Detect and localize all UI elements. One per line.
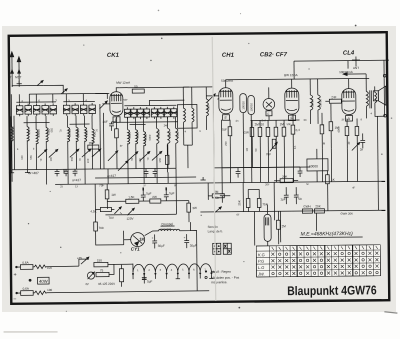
antenna labels [8, 75, 22, 79]
tube CB2 [263, 98, 275, 116]
coupling resistor R24F [325, 95, 344, 103]
svg-text:1K: 1K [139, 237, 144, 242]
svg-text:1500: 1500 [176, 131, 180, 138]
resistor R pot vertical [119, 265, 123, 287]
IF2 coil L18 [310, 79, 313, 124]
IF2 coil L19 [318, 79, 321, 124]
wire CL4 top lead [348, 79, 350, 89]
section label CK1 [107, 53, 120, 59]
padder capacitor PC4 [144, 107, 150, 119]
svg-text:120V: 120V [126, 217, 133, 221]
svg-text:4000: 4000 [337, 126, 341, 133]
svg-text:5000: 5000 [144, 133, 148, 140]
svg-text:60000: 60000 [309, 164, 318, 168]
wire CK1 grid feed a [99, 104, 102, 169]
wire net pot [108, 264, 133, 274]
svg-text:30000: 30000 [37, 129, 41, 138]
label 70F mid [99, 183, 104, 187]
wire net n2 [161, 200, 189, 202]
tube CL4 [342, 89, 356, 122]
legend bullet 2 [205, 276, 240, 280]
trimmer arrow T4 [82, 149, 91, 157]
scan speck top band [158, 9, 241, 15]
wire AVC bus [251, 119, 300, 121]
wire CK1 cathode [112, 117, 117, 122]
svg-text:100: 100 [20, 155, 24, 160]
resistor RZ2 [35, 286, 210, 294]
svg-text:50F: 50F [123, 98, 128, 102]
wire top bus upper [294, 60, 389, 79]
svg-text:+25: +25 [77, 256, 82, 260]
capacitor C n6 [280, 187, 289, 204]
svg-text:50/12mA: 50/12mA [221, 79, 233, 83]
wire HT bus risers [108, 168, 168, 184]
cap C_a1 [55, 169, 60, 176]
scan mark bottom right [384, 312, 397, 314]
capacitor E1 100uF [240, 94, 247, 168]
resistor R 2W mid [150, 195, 161, 203]
legend bullet 1 [205, 270, 231, 274]
svg-text:13000: 13000 [310, 99, 314, 107]
trimmer arrow mid3 [152, 151, 162, 160]
svg-text:700: 700 [99, 226, 104, 230]
wire net n5 [248, 188, 259, 190]
switch SW mid [208, 183, 221, 213]
band switch table [256, 245, 380, 277]
wire mid left riser [95, 184, 100, 222]
resistor R_b2 [258, 120, 262, 167]
svg-text:Gr=407: Gr=407 [28, 171, 39, 175]
wire vert n10 [253, 211, 255, 245]
svg-text:555: 555 [29, 155, 33, 160]
wire ext v7 [175, 168, 177, 183]
cap C_m1 [144, 168, 149, 177]
resistor R_b1 [244, 120, 255, 167]
coil L11 [144, 117, 146, 169]
svg-text:100/10: 100/10 [241, 101, 245, 110]
padder capacitor PC1 [124, 107, 130, 119]
wire ext v4 [127, 169, 129, 184]
svg-text:P.G: P.G [258, 259, 264, 264]
connector hook top [383, 74, 386, 77]
padder capacitor PC2 [131, 107, 137, 119]
connector hook mid [384, 114, 387, 117]
dial cord pulleys [132, 267, 214, 279]
svg-text:4F: 4F [352, 186, 355, 190]
coil L13 [168, 117, 171, 169]
IF can outline [177, 105, 197, 129]
micro labels mid [60, 182, 356, 219]
trimmer arrow CK1 bottom [108, 151, 118, 161]
capacitor C n7 [294, 187, 302, 204]
wire left chassis vertical 2 [13, 116, 16, 170]
svg-text:3F: 3F [120, 144, 123, 148]
resistor R_b5 [282, 120, 286, 167]
capacitor C 30uF a [152, 234, 165, 248]
wire riser left [28, 94, 30, 104]
capacitor C 6uF [142, 274, 153, 284]
wire ext tube5 [259, 167, 261, 182]
svg-text:2W: 2W [152, 195, 157, 199]
trimmer arrow T5 [92, 149, 101, 157]
svg-text:1M: 1M [280, 122, 285, 126]
trimmer arrow T2 [49, 149, 58, 157]
resistor R_a 50 [132, 85, 144, 94]
wire under tubes bottom [222, 166, 300, 169]
wire ext tube3 [243, 168, 245, 183]
wire right column [383, 78, 385, 116]
wire riser boxA5 [52, 94, 54, 103]
resistor R 1.5K [107, 195, 139, 204]
label ANT [352, 56, 360, 70]
svg-text:5F: 5F [306, 182, 309, 186]
scan speckles [26, 24, 394, 312]
legend line 3 [211, 280, 227, 284]
trimmer arrow CH1 [208, 94, 215, 101]
svg-text:7F: 7F [143, 184, 146, 188]
svg-text:555: 555 [158, 157, 162, 162]
dial cord scallops [133, 264, 211, 273]
resistor R_b3 [266, 120, 270, 167]
wire ext v1 [46, 169, 48, 184]
cap C_m2 [153, 168, 158, 177]
svg-text:K.G: K.G [258, 252, 265, 257]
padder capacitor PA2 [25, 104, 32, 117]
trimmer arrow CK1 bottom2 [118, 161, 128, 171]
wire CY1 leads [96, 231, 131, 245]
svg-text:20F: 20F [89, 141, 94, 145]
coil L3 [36, 116, 39, 170]
padder capacitor PB4 [89, 103, 96, 116]
micro labels RF [16, 95, 372, 150]
svg-text:2n7: 2n7 [262, 118, 267, 122]
coil L2 [27, 116, 30, 170]
label 2n right [360, 147, 364, 151]
trimmer arrow mid1 [128, 152, 138, 161]
svg-text:GW: GW [244, 131, 249, 135]
label 04 b [296, 128, 301, 132]
section label CL4 [343, 51, 355, 57]
svg-text:+: + [184, 236, 186, 240]
connector block X2 [223, 243, 231, 254]
label Drossel [161, 222, 175, 226]
fuse F2 0.6A [17, 287, 35, 296]
wire ext r2 [330, 149, 332, 182]
coil CH1 grid [206, 87, 210, 130]
ground G1 [9, 170, 14, 173]
svg-text:0,4: 0,4 [296, 128, 301, 132]
svg-text:555: 555 [27, 129, 31, 134]
svg-text:100: 100 [138, 158, 142, 163]
svg-text:CY1: CY1 [131, 247, 140, 252]
svg-text:0,6A: 0,6A [23, 287, 29, 291]
wire plus riser [79, 259, 89, 266]
svg-text:100: 100 [86, 158, 90, 163]
padder capacitor PB2 [72, 103, 79, 116]
wire net riser table [315, 213, 317, 230]
wire CK1 top lead [116, 88, 119, 92]
transformer TR1 core [370, 90, 372, 108]
label ME frequency [300, 231, 363, 238]
fuse F1 0.6A [16, 261, 34, 270]
svg-text:GWH: GWH [303, 204, 310, 208]
svg-text:50: 50 [215, 196, 219, 200]
barretter tube U1 [264, 204, 271, 249]
cap C_a2 [64, 169, 69, 176]
coil L10 [136, 117, 138, 169]
svg-text:100: 100 [47, 288, 52, 292]
wire net n1 [139, 200, 150, 202]
wire choke out [191, 231, 197, 251]
cap C_a3 [73, 169, 78, 176]
capacitor C 30uF b [184, 234, 197, 248]
voltage switch SW70 [108, 207, 134, 221]
micro labels RF2 [20, 140, 351, 164]
wire link clusterA [24, 121, 50, 123]
wire box row C frame [124, 100, 184, 106]
svg-text:1,5K: 1,5K [128, 195, 134, 199]
svg-text:+: + [13, 272, 16, 278]
resistor R GWH [302, 204, 324, 213]
svg-text:555: 555 [70, 156, 74, 161]
svg-text:100: 100 [49, 157, 53, 162]
wire riser boxA3 [35, 94, 37, 103]
wire CH1 grid vertical [212, 96, 215, 183]
cap C_k1 [109, 122, 114, 131]
svg-text:CL4: CL4 [343, 51, 355, 57]
padder capacitor PC6 [158, 107, 164, 119]
rectifier CY1 [131, 233, 145, 247]
wire ext tube1 [221, 168, 223, 183]
wire screen bus [120, 121, 178, 124]
trimmer arrow right [352, 142, 360, 150]
svg-text:40W: 40W [39, 279, 48, 284]
svg-text:Sendlin: Sendlin [208, 225, 219, 229]
wire IF top [183, 86, 213, 88]
tube CF7 [285, 88, 299, 121]
coil L4 [46, 116, 49, 170]
wire main HT bus [55, 181, 385, 184]
label MW 12mA [116, 81, 130, 85]
svg-text:555: 555 [206, 105, 210, 110]
coil L8 [92, 116, 95, 170]
label mid bottom [107, 174, 116, 178]
power resistor block [307, 149, 328, 182]
label Sender line1 [208, 225, 219, 229]
svg-text:mauvenise.: mauvenise. [211, 280, 227, 284]
wire vert n11 [279, 211, 281, 242]
svg-text:5µF: 5µF [146, 191, 151, 195]
svg-text:200: 200 [224, 141, 228, 146]
wire ext v5 [143, 169, 145, 184]
padder capacitor PA4 [42, 103, 49, 116]
wire CB2 base down [268, 116, 270, 120]
padder capacitor PA1 [16, 104, 23, 117]
resistor R_c3 [329, 104, 340, 149]
band switch S2 [61, 89, 67, 94]
tube CH1 [219, 88, 233, 121]
ground G2 [25, 170, 30, 173]
potentiometer P1 [266, 139, 278, 156]
resistor R_r1 [337, 119, 349, 149]
wire plate feed CL4 [343, 72, 366, 78]
resistor R 4.5K [90, 207, 111, 213]
antenna A1 [10, 52, 14, 87]
resistor R 700 [94, 222, 104, 241]
lamp LP1 [87, 272, 94, 279]
ground mid1 [200, 177, 205, 180]
capacitor E2 100uF [248, 95, 255, 167]
svg-text:F: F [267, 112, 269, 116]
title Blaupunkt 4GW76 [287, 283, 377, 298]
wire ext r3 [346, 149, 348, 182]
svg-text:30µF: 30µF [190, 244, 197, 248]
capacitor C 5uF b [164, 187, 175, 201]
wire ext r1 [321, 149, 323, 182]
section label CH1 [222, 53, 235, 59]
svg-text:50F: 50F [287, 122, 292, 126]
svg-text:70V: 70V [108, 216, 113, 220]
svg-text:30000: 30000 [68, 129, 72, 138]
svg-text:CB2· CF7: CB2· CF7 [260, 52, 288, 58]
svg-text:BW 12mA: BW 12mA [284, 73, 298, 77]
svg-text:150: 150 [97, 258, 102, 262]
svg-text:30µF: 30µF [158, 244, 165, 248]
speaker LS1 [373, 86, 386, 105]
scan streak bottom left [4, 331, 58, 332]
wire link clusterC [130, 124, 146, 126]
label CY1 [131, 247, 140, 252]
svg-text:5000: 5000 [136, 132, 140, 139]
wire mid bottom [128, 167, 176, 169]
IF2 labels [310, 99, 322, 107]
svg-text:+: + [152, 236, 154, 240]
svg-text:5µF: 5µF [169, 191, 174, 195]
svg-text:1W: 1W [111, 193, 116, 197]
wire riser boxA1 [18, 94, 20, 103]
wire ext v2 [67, 169, 69, 184]
wire top bus right [226, 78, 369, 79]
wire riser boxB1 [65, 94, 67, 103]
section labels CB2 CF7 [260, 52, 288, 58]
wire CF7 top [291, 79, 293, 88]
svg-text:24F: 24F [164, 123, 169, 127]
svg-text:25K: 25K [237, 200, 241, 205]
svg-text:50: 50 [134, 85, 138, 89]
wire CB2 top [268, 87, 270, 98]
svg-text:3F: 3F [342, 118, 345, 122]
resistor R 1W [105, 184, 116, 209]
svg-text:70F: 70F [99, 183, 104, 187]
resistor R 75 [96, 268, 109, 276]
svg-text:5µF: 5µF [147, 279, 152, 283]
svg-text:−: − [13, 297, 16, 303]
svg-text:95 125 220V: 95 125 220V [98, 282, 115, 286]
wire ext v6 [156, 168, 158, 183]
label 100 22mA [339, 70, 353, 74]
wire vert n9 [273, 182, 275, 220]
label 2MY10 [255, 122, 265, 126]
padder capacitor PA5 [50, 103, 57, 116]
resistor R_sc [88, 141, 99, 149]
resistor R_m1 [165, 144, 169, 172]
svg-text:100/10: 100/10 [249, 102, 253, 111]
capacitor C 5uF [141, 187, 152, 201]
svg-text:0,1: 0,1 [293, 145, 297, 149]
wire antenna to band switch [12, 86, 43, 87]
transformer TR1 primary [366, 78, 368, 118]
wire switch to grid bus [43, 85, 63, 93]
antenna A2 [17, 57, 21, 87]
wire box row A frame [16, 101, 55, 103]
band switch S1 [37, 81, 43, 86]
svg-text:GWH 20K: GWH 20K [340, 212, 353, 216]
wire bottom bus left [37, 169, 93, 174]
scan fold line [212, 37, 216, 301]
padder capacitor PA3 [33, 104, 40, 117]
terminal plus [13, 266, 17, 278]
cap C_r1 [360, 133, 365, 148]
label 4V lamp [85, 282, 89, 286]
svg-text:2M: 2M [282, 224, 287, 228]
svg-text:JW.: JW. [257, 271, 265, 276]
svg-text:24F: 24F [331, 95, 336, 99]
wire ext v3 [84, 169, 86, 184]
capacitor C n4 [215, 183, 225, 203]
svg-text:1M: 1M [245, 148, 249, 152]
label a417 [72, 178, 81, 182]
wire CH1 cathode down [221, 120, 223, 168]
resistor R_b4 [274, 120, 278, 167]
resistor R 3W [187, 201, 197, 223]
resistor R 1K bus [326, 171, 336, 211]
wire scallop right [133, 263, 215, 273]
svg-text:ANT: ANT [353, 66, 359, 70]
label 20F [103, 120, 108, 124]
coil L6 [76, 116, 79, 170]
antenna ground [17, 81, 22, 84]
coil L1 [11, 116, 14, 170]
wire long input bus [29, 92, 109, 95]
label 70F [222, 128, 227, 132]
svg-text:13000: 13000 [318, 99, 322, 107]
svg-text:1500: 1500 [168, 131, 172, 138]
resistor R_r2 [355, 118, 359, 148]
svg-text:M.E.=468KHz(473KHz): M.E.=468KHz(473KHz) [301, 231, 353, 238]
border frame [9, 32, 390, 304]
svg-text:3W: 3W [192, 206, 197, 210]
cap mid-right a [236, 168, 241, 178]
connector block X1 [213, 243, 221, 254]
resistor RZ1 [34, 265, 79, 270]
svg-text:MW 12mA: MW 12mA [116, 81, 130, 85]
label 50 12mA [221, 79, 233, 83]
resistor R 25K [237, 190, 250, 212]
svg-text:L.G: L.G [258, 265, 265, 270]
resistor R 2M [208, 190, 230, 198]
wire CH1 grid left [206, 95, 218, 97]
svg-text:70F: 70F [266, 152, 271, 156]
cap mid-right b [298, 167, 303, 177]
wire minus riser [196, 250, 198, 290]
resistor R_b6 [291, 114, 295, 167]
resistor R_c2 [320, 113, 324, 149]
wire riser boxB3 [82, 94, 84, 103]
svg-text:2MY10: 2MY10 [255, 122, 265, 126]
wire ext r4 [356, 148, 358, 181]
label choke value [160, 227, 172, 231]
wire left chassis vertical [10, 94, 13, 181]
